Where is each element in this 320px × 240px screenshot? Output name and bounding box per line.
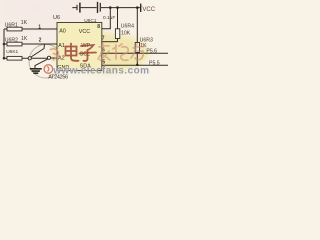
svg-text:U6R1: U6R1 [5, 23, 18, 29]
wire R5 row to switch and IC [4, 57, 57, 59]
wire WP pin 7 [102, 41, 118, 43]
wire SCL pin 6 [102, 52, 168, 54]
svg-text:P5.6: P5.6 [146, 49, 157, 55]
svg-text:VCC: VCC [142, 7, 155, 13]
capacitor U6C1 plates [97, 2, 99, 13]
watermark yellow badge [51, 33, 149, 73]
junction bus R5 [3, 57, 6, 60]
svg-text:7: 7 [102, 35, 105, 41]
svg-text:5: 5 [102, 59, 105, 65]
watermark red char 0 [51, 49, 62, 60]
switch contact left [28, 57, 31, 60]
wire U6R3 vertical [136, 8, 138, 65]
watermark logo ring [44, 65, 53, 74]
wire left bus [3, 29, 5, 58]
svg-text:U6: U6 [53, 15, 60, 21]
resistor U6R2 [7, 42, 22, 46]
resistor U6R3 body [135, 43, 139, 53]
svg-text:10K: 10K [121, 30, 131, 36]
wire R2 stubs [4, 43, 57, 45]
junction VCC pin rail [109, 6, 112, 9]
switch body circle [29, 44, 63, 78]
svg-text:AT24256: AT24256 [48, 75, 68, 81]
switch lever to A1 [31, 44, 45, 57]
svg-text:1K: 1K [21, 20, 28, 26]
svg-text:2: 2 [39, 38, 42, 44]
svg-text:0.1uF: 0.1uF [103, 15, 115, 21]
wire R1 stubs [4, 28, 57, 30]
svg-text:VCC: VCC [79, 29, 90, 35]
svg-text:8: 8 [97, 24, 100, 30]
texts [5, 7, 160, 67]
junction U6R3 SDA [136, 64, 139, 67]
wire top VCC rail [72, 7, 140, 9]
wire U6R4 vertical [117, 8, 119, 42]
resistor U6R1 [7, 27, 22, 31]
ground [30, 69, 42, 73]
resistor U6R4 body [115, 29, 119, 39]
svg-text:U6K1: U6K1 [6, 49, 18, 55]
background [0, 0, 168, 85]
watermark red char zi [80, 45, 97, 61]
svg-text:A1: A1 [58, 43, 65, 49]
svg-text:U6C1: U6C1 [84, 18, 97, 24]
junction U6R4 rail [116, 6, 119, 9]
switch contact right [47, 56, 50, 59]
wire VCC pin 8 [102, 8, 111, 29]
svg-text:U6R2: U6R2 [5, 38, 18, 44]
svg-text:1: 1 [38, 24, 41, 30]
power VCC bar [140, 4, 142, 12]
svg-text:U6R4: U6R4 [121, 24, 134, 30]
watermark red char shao [113, 44, 128, 60]
watermark red char you [131, 44, 144, 60]
svg-text:A0: A0 [59, 29, 66, 35]
junction bus R2 [3, 43, 6, 46]
svg-text:1K: 1K [21, 36, 28, 42]
switch lever to ground [35, 59, 48, 68]
wire SDA pin 5 [102, 64, 168, 66]
watermark red char dian [66, 44, 79, 61]
IC U6 box [57, 23, 102, 71]
svg-text:P5.5: P5.5 [149, 61, 160, 67]
junction U6R3 rail [136, 6, 139, 9]
resistor U6R5 row (switch feed) [7, 56, 22, 60]
watermark red char fa [98, 44, 110, 60]
capacitor U6C2 plates [76, 5, 78, 10]
